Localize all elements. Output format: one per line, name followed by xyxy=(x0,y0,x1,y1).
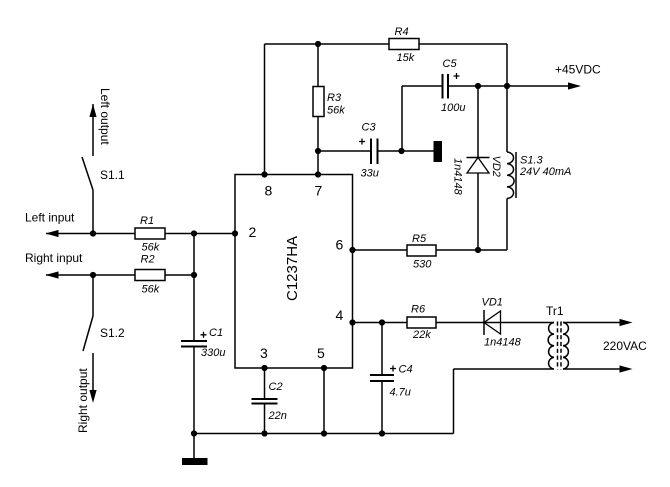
svg-text:R6: R6 xyxy=(411,304,426,316)
svg-text:C2: C2 xyxy=(269,381,283,393)
svg-text:3: 3 xyxy=(260,345,268,361)
svg-text:S1.2: S1.2 xyxy=(100,326,125,340)
svg-text:+45VDC: +45VDC xyxy=(555,63,601,77)
svg-text:2: 2 xyxy=(249,224,257,240)
svg-text:330u: 330u xyxy=(201,347,225,359)
svg-text:56k: 56k xyxy=(142,284,160,296)
svg-text:R3: R3 xyxy=(327,92,342,104)
svg-text:C1237HA: C1237HA xyxy=(284,236,301,301)
svg-text:R1: R1 xyxy=(140,215,154,227)
svg-text:56k: 56k xyxy=(327,105,345,117)
svg-text:8: 8 xyxy=(265,183,273,199)
svg-text:33u: 33u xyxy=(361,168,379,180)
svg-text:Tr1: Tr1 xyxy=(546,304,564,318)
svg-text:220VAC: 220VAC xyxy=(603,339,647,353)
svg-text:22n: 22n xyxy=(268,410,287,422)
svg-text:56k: 56k xyxy=(142,242,160,254)
svg-text:1n4148: 1n4148 xyxy=(452,158,464,196)
svg-text:24V 40mA: 24V 40mA xyxy=(519,166,571,178)
svg-text:Right output: Right output xyxy=(76,368,90,433)
svg-text:R4: R4 xyxy=(395,26,409,38)
svg-text:C1: C1 xyxy=(209,327,223,339)
svg-text:5: 5 xyxy=(317,345,325,361)
svg-text:C5: C5 xyxy=(443,58,458,70)
svg-text:C3: C3 xyxy=(362,122,377,134)
svg-text:530: 530 xyxy=(413,259,432,271)
svg-text:C4: C4 xyxy=(399,364,413,376)
svg-text:R2: R2 xyxy=(141,254,155,266)
svg-text:15k: 15k xyxy=(397,52,415,64)
svg-text:Left output: Left output xyxy=(98,88,112,145)
svg-text:S1.3: S1.3 xyxy=(520,155,544,167)
svg-text:4.7u: 4.7u xyxy=(390,387,411,399)
svg-text:1n4148: 1n4148 xyxy=(484,337,522,349)
svg-text:22k: 22k xyxy=(412,329,431,341)
svg-text:100u: 100u xyxy=(441,102,465,114)
svg-text:4: 4 xyxy=(336,307,344,323)
svg-text:VD2: VD2 xyxy=(490,156,502,177)
svg-text:7: 7 xyxy=(315,183,323,199)
svg-text:6: 6 xyxy=(336,237,344,253)
svg-text:S1.1: S1.1 xyxy=(100,168,125,182)
svg-text:R5: R5 xyxy=(412,233,427,245)
svg-text:VD1: VD1 xyxy=(482,297,503,309)
svg-text:Left input: Left input xyxy=(25,211,75,225)
svg-text:Right input: Right input xyxy=(25,251,83,265)
